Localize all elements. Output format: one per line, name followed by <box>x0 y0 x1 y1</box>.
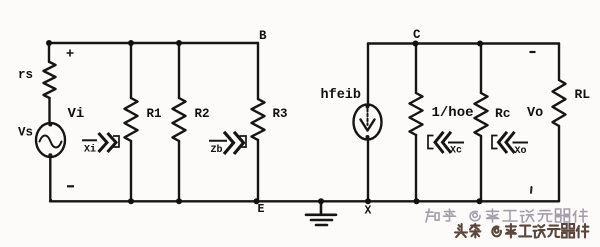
voltage source Vs <box>36 123 65 158</box>
watermark zhihu line <box>426 209 587 222</box>
node 1/hoe bottom <box>414 198 420 204</box>
wire RL branch upper <box>558 44 560 81</box>
impedance arrow Zb <box>209 132 246 154</box>
svg-text:Rc: Rc <box>495 106 511 121</box>
impedance arrow Xo <box>492 132 528 153</box>
svg-text:R3: R3 <box>273 107 288 121</box>
wire rs to Vs <box>48 98 50 124</box>
wire R1 branch lower <box>130 141 132 201</box>
wire R2 branch lower <box>178 141 180 201</box>
resistor R1 <box>125 98 138 141</box>
resistor RL <box>553 80 566 126</box>
svg-text:Vs: Vs <box>18 126 33 140</box>
node Rc bottom <box>477 198 483 204</box>
svg-text:RL: RL <box>575 87 591 102</box>
current source hfeib <box>354 105 382 140</box>
resistor R2 <box>173 98 186 141</box>
resistor R3 <box>252 99 265 140</box>
impedance arrow Xi <box>82 133 119 152</box>
node C junction <box>413 41 419 47</box>
wire hfeib branch upper <box>367 44 369 106</box>
resistor Rc <box>475 93 488 136</box>
node dots <box>46 40 483 204</box>
wire top rail right (node C rail) <box>368 42 559 44</box>
node R1 top <box>128 40 134 46</box>
plus sign Vi <box>67 50 74 57</box>
wire Vs to bottom rail <box>49 157 52 200</box>
wire Rc branch upper <box>480 44 482 94</box>
watermark toutiao line <box>456 225 589 239</box>
wire bottom rail <box>50 200 559 202</box>
wire Rc branch lower <box>480 136 482 201</box>
svg-text:Vi: Vi <box>68 106 85 122</box>
resistor 1/hoe <box>410 93 423 135</box>
node top-left junction <box>46 40 52 46</box>
svg-text:Vo: Vo <box>527 106 543 121</box>
svg-text:Zb: Zb <box>211 144 223 156</box>
node R1 bottom <box>128 198 134 204</box>
wire top rail left (node B rail) <box>49 42 258 44</box>
node E junction <box>254 198 260 204</box>
svg-text:Xc: Xc <box>450 146 462 157</box>
svg-text:R1: R1 <box>147 107 162 121</box>
plus tick Vo <box>530 187 533 193</box>
svg-text:hfeib: hfeib <box>321 88 362 103</box>
svg-text:E: E <box>258 203 265 216</box>
resistor rs <box>44 62 56 98</box>
node Rc top <box>477 41 483 47</box>
ground <box>306 201 336 225</box>
svg-text:R2: R2 <box>195 107 210 121</box>
wire R2 branch upper <box>178 43 180 98</box>
svg-text:Xi: Xi <box>84 144 96 156</box>
node ground junction <box>318 198 324 204</box>
watermark toutiao line dark strokes <box>455 224 588 238</box>
svg-text:1/hoe: 1/hoe <box>432 105 474 121</box>
wire hfeib branch lower <box>367 140 369 202</box>
svg-text:X: X <box>365 205 372 218</box>
node R2 bottom <box>176 198 182 204</box>
wire R1 branch upper <box>130 43 132 98</box>
wire left source branch upper <box>48 43 50 62</box>
wire R3 branch lower <box>257 140 259 201</box>
wire 1/hoe branch lower <box>415 135 417 201</box>
svg-text:rs: rs <box>18 68 33 82</box>
svg-text:Xo: Xo <box>515 146 527 157</box>
minus sign Vo <box>530 51 536 53</box>
impedance arrow Xc <box>428 132 464 153</box>
svg-text:C: C <box>413 28 421 42</box>
minus sign Vi <box>67 185 74 187</box>
svg-text:B: B <box>259 29 267 43</box>
wire 1/hoe branch upper <box>415 44 417 94</box>
wire RL branch lower <box>558 126 560 201</box>
node R2 top <box>176 40 182 46</box>
node emitter right junction <box>365 198 371 204</box>
wire R3 branch upper <box>257 43 259 99</box>
